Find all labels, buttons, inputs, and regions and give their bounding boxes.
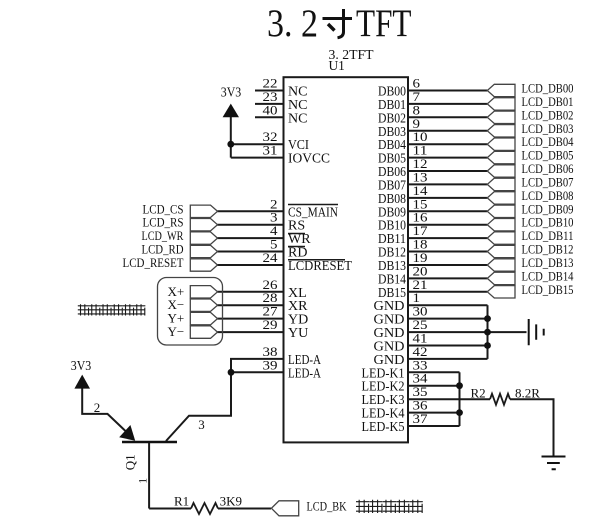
svg-text:LCD_BK: LCD_BK [307, 499, 347, 514]
svg-text:3V3: 3V3 [71, 358, 92, 373]
svg-text:37: 37 [413, 412, 428, 426]
svg-text:11: 11 [413, 144, 428, 158]
svg-text:33: 33 [413, 358, 428, 372]
svg-text:41: 41 [413, 332, 428, 346]
svg-text:39: 39 [263, 358, 278, 372]
svg-text:3: 3 [270, 211, 278, 225]
svg-text:34: 34 [413, 372, 429, 386]
svg-text:35: 35 [413, 385, 428, 399]
svg-text:21: 21 [413, 278, 428, 292]
svg-text:3V3: 3V3 [221, 85, 242, 100]
svg-text:9: 9 [413, 117, 421, 131]
svg-text:TFT: TFT [356, 2, 412, 45]
svg-text:IOVCC: IOVCC [288, 152, 330, 167]
svg-text:23: 23 [263, 90, 278, 104]
svg-text:36: 36 [413, 399, 428, 413]
svg-text:19: 19 [413, 251, 428, 265]
svg-text:7: 7 [413, 90, 421, 104]
svg-text:YU: YU [288, 326, 308, 341]
svg-text:3. 2: 3. 2 [267, 2, 318, 45]
svg-text:3: 3 [198, 417, 205, 432]
svg-text:20: 20 [413, 264, 428, 278]
svg-text:LED-A: LED-A [288, 366, 322, 381]
svg-text:27: 27 [263, 305, 278, 319]
svg-text:25: 25 [413, 318, 428, 332]
svg-text:Y−: Y− [168, 324, 185, 339]
svg-text:28: 28 [263, 291, 278, 305]
svg-text:17: 17 [413, 224, 428, 238]
svg-text:31: 31 [263, 144, 278, 158]
svg-text:R1: R1 [174, 493, 189, 508]
svg-text:R2: R2 [471, 386, 486, 401]
svg-text:LCD_DB15: LCD_DB15 [522, 282, 574, 297]
svg-text:24: 24 [263, 251, 279, 265]
svg-text:29: 29 [263, 318, 278, 332]
svg-text:22: 22 [263, 77, 278, 91]
svg-text:1: 1 [413, 291, 421, 305]
svg-text:15: 15 [413, 197, 428, 211]
svg-text:1: 1 [137, 478, 149, 484]
svg-text:5: 5 [270, 238, 278, 252]
svg-text:26: 26 [263, 278, 278, 292]
svg-text:10: 10 [413, 130, 428, 144]
svg-text:LCDRESET: LCDRESET [288, 259, 352, 274]
svg-text:2: 2 [94, 400, 101, 415]
svg-text:18: 18 [413, 238, 428, 252]
svg-text:32: 32 [263, 130, 278, 144]
svg-text:4: 4 [270, 224, 278, 238]
svg-text:14: 14 [413, 184, 429, 198]
svg-text:40: 40 [263, 103, 278, 117]
svg-text:16: 16 [413, 211, 428, 225]
svg-text:12: 12 [413, 157, 428, 171]
svg-text:30: 30 [413, 305, 428, 319]
svg-text:LCD_RESET: LCD_RESET [123, 255, 184, 270]
svg-text:2: 2 [270, 197, 278, 211]
svg-text:38: 38 [263, 345, 278, 359]
svg-text:42: 42 [413, 345, 428, 359]
svg-text:13: 13 [413, 170, 428, 184]
svg-text:8: 8 [413, 103, 421, 117]
svg-text:NC: NC [288, 111, 307, 126]
svg-text:U1: U1 [329, 58, 345, 73]
svg-text:LED-K5: LED-K5 [362, 420, 405, 435]
svg-text:3K9: 3K9 [220, 493, 242, 508]
svg-text:8.2R: 8.2R [515, 386, 540, 401]
svg-text:6: 6 [413, 77, 421, 91]
svg-text:Q1: Q1 [123, 454, 138, 470]
